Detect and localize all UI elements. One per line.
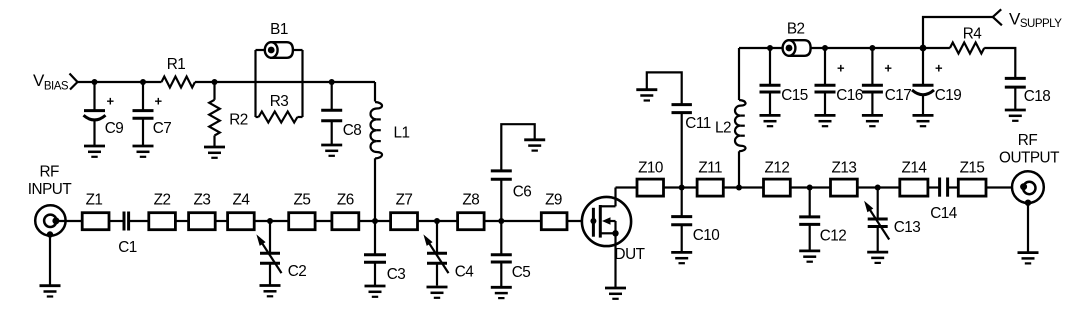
- transmission line Z6: [332, 213, 359, 230]
- ground under C3: [365, 286, 386, 297]
- wire Z3 to Z4: [215, 220, 227, 222]
- junction C7 node: [140, 79, 146, 85]
- ferrite bead B2: [783, 20, 811, 55]
- svg-text:R4: R4: [963, 26, 983, 43]
- variable capacitor C4: [423, 221, 474, 286]
- transmission line Z14: [900, 179, 928, 196]
- RF output coax connector: [1012, 171, 1044, 206]
- svg-text:Z3: Z3: [193, 191, 210, 208]
- transmission line Z8: [458, 213, 485, 230]
- svg-text:C1: C1: [118, 239, 137, 256]
- wire L2 to supply rail: [738, 48, 740, 100]
- capacitor C14: [930, 178, 958, 223]
- svg-text:Z6: Z6: [337, 191, 354, 208]
- ground under C19: [913, 115, 934, 126]
- transmission line Z3: [189, 213, 216, 230]
- svg-text:C8: C8: [343, 122, 362, 139]
- svg-text:B2: B2: [787, 20, 805, 37]
- RF input coax connector: [35, 205, 65, 237]
- junction C4 node: [434, 218, 440, 224]
- wire Z1 to C1: [109, 220, 124, 222]
- svg-text:+: +: [106, 94, 114, 109]
- svg-text:Z1: Z1: [86, 191, 103, 208]
- svg-text:B1: B1: [270, 21, 288, 38]
- transmission line Z2: [149, 213, 176, 230]
- svg-text:+: +: [935, 61, 943, 76]
- transmission line Z7: [391, 213, 418, 230]
- wire Z5 to Z6: [315, 220, 332, 222]
- wire Z6 to L1-C3 node: [359, 220, 391, 222]
- svg-text:C18: C18: [1024, 88, 1051, 105]
- wire supply rail: [739, 47, 923, 49]
- svg-text:+: +: [884, 61, 892, 76]
- junction C5-C6 node: [498, 218, 504, 224]
- wire Z4 to C2 node: [254, 220, 289, 222]
- capacitor C10: [671, 188, 719, 253]
- svg-text:Z14: Z14: [901, 159, 927, 176]
- capacitor C12: [799, 188, 846, 251]
- ground under C16: [815, 115, 836, 126]
- transmission line Z12: [764, 179, 791, 196]
- ground of C11: [636, 90, 657, 101]
- svg-text:C14: C14: [930, 205, 958, 222]
- inductor L1: [371, 102, 383, 159]
- ground under R2: [204, 147, 225, 158]
- transmission line Z4: [228, 213, 255, 230]
- capacitor C19: [912, 48, 961, 115]
- svg-text:C2: C2: [288, 263, 307, 280]
- svg-text:Z10: Z10: [638, 159, 663, 176]
- ground under C9: [84, 146, 105, 157]
- junction C15 node: [767, 45, 773, 51]
- capacitor C18: [1005, 78, 1050, 110]
- capacitor C17: [862, 48, 911, 115]
- svg-text:C3: C3: [387, 266, 406, 283]
- svg-text:+: +: [837, 61, 845, 76]
- svg-text:C16: C16: [836, 87, 863, 104]
- wire connector to Z1: [57, 220, 82, 222]
- capacitor C8: [321, 82, 361, 145]
- node VBIAS input chevron: [70, 74, 78, 90]
- svg-text:C13: C13: [894, 219, 921, 236]
- ground under C10: [671, 252, 692, 263]
- wire DUT drain to Z10: [616, 186, 638, 188]
- svg-text:Z12: Z12: [764, 159, 789, 176]
- wire L1 to input line: [374, 158, 376, 221]
- capacitor C7: [133, 82, 172, 146]
- wire Z10 to C10-C11 node: [664, 186, 698, 188]
- junction L2 node: [736, 185, 742, 191]
- svg-text:C19: C19: [935, 87, 962, 104]
- transmission line Z15: [958, 179, 986, 196]
- capacitor C3: [364, 221, 405, 286]
- ground under C4: [427, 287, 448, 298]
- ground under C8: [321, 145, 342, 156]
- svg-text:C11: C11: [685, 115, 710, 132]
- svg-text:DUT: DUT: [615, 246, 645, 263]
- svg-text:INPUT: INPUT: [28, 181, 72, 198]
- transmission line Z13: [831, 179, 858, 196]
- junction R2 node: [212, 79, 218, 85]
- resistor R2: [209, 82, 248, 147]
- svg-text:C5: C5: [512, 264, 531, 281]
- junction C10-C11 node: [679, 185, 685, 191]
- svg-text:RF: RF: [1018, 132, 1038, 149]
- svg-text:Z11: Z11: [698, 159, 722, 176]
- ferrite bead B1: [256, 21, 303, 58]
- svg-text:C4: C4: [455, 264, 475, 281]
- capacitor C9: [84, 82, 124, 146]
- ground of C6: [524, 140, 545, 151]
- wire bias rail right: [195, 81, 375, 83]
- svg-text:C7: C7: [153, 120, 172, 137]
- wire output connector to ground: [1027, 203, 1029, 253]
- wire R4 to C18: [984, 48, 1015, 78]
- wire bias rail corner down to L1: [374, 82, 376, 102]
- svg-text:Z15: Z15: [960, 159, 985, 176]
- wire VSUPPLY riser: [923, 17, 993, 48]
- svg-text:R1: R1: [167, 56, 186, 73]
- svg-text:Z4: Z4: [232, 191, 250, 208]
- svg-text:Z2: Z2: [154, 191, 171, 208]
- transmission line Z5: [289, 213, 315, 230]
- inductor L2: [735, 100, 746, 151]
- wire DUT source to ground: [614, 233, 616, 288]
- svg-text:C12: C12: [820, 228, 847, 245]
- svg-text:C10: C10: [693, 227, 720, 244]
- wire Z9 to DUT gate: [567, 220, 593, 222]
- node VSUPPLY chevron: [993, 9, 1002, 25]
- resistor R3: [256, 93, 303, 123]
- junction C2 node: [267, 218, 273, 224]
- wire Z13 to C13 node: [857, 186, 900, 188]
- capacitor C6: [491, 124, 535, 221]
- transmission line Z11: [697, 179, 723, 196]
- transmission line Z9: [541, 213, 567, 230]
- wire B1-R3 loop left: [254, 50, 256, 117]
- ground under RF input: [40, 286, 61, 297]
- svg-text:R3: R3: [270, 93, 289, 110]
- svg-text:L2: L2: [715, 120, 731, 137]
- junction C13 node: [875, 185, 881, 191]
- wire Z2 to Z3: [175, 220, 188, 222]
- wire connector to ground: [49, 235, 51, 286]
- wire rail to R4: [923, 47, 950, 49]
- ground under RF output: [1018, 253, 1039, 264]
- variable capacitor C2: [256, 221, 306, 286]
- junction L1-C3 node: [372, 218, 378, 224]
- junction C9 node: [92, 79, 98, 85]
- wire C1 to Z2: [129, 220, 149, 222]
- resistor R1: [162, 77, 195, 88]
- svg-text:Z13: Z13: [831, 159, 856, 176]
- capacitor C5: [491, 221, 530, 287]
- junction C17 node: [869, 45, 875, 51]
- svg-text:R2: R2: [229, 112, 248, 129]
- wire Z15 to output connector: [986, 186, 1020, 188]
- ground under C5: [491, 287, 512, 298]
- svg-text:Z8: Z8: [462, 191, 479, 208]
- capacitor C16: [815, 48, 863, 115]
- wire Z14 to C14: [928, 186, 940, 188]
- svg-text:C6: C6: [513, 184, 532, 201]
- ground under C2: [260, 286, 281, 297]
- resistor R4: [950, 43, 984, 54]
- svg-text:C15: C15: [781, 87, 808, 104]
- wire L2 to output line: [738, 151, 740, 187]
- variable capacitor C13: [864, 188, 920, 253]
- svg-text:RF: RF: [39, 164, 59, 181]
- svg-text:OUTPUT: OUTPUT: [999, 150, 1059, 167]
- transmission line Z1: [82, 213, 109, 230]
- ground under C13: [867, 252, 888, 263]
- svg-text:Z7: Z7: [396, 191, 413, 208]
- junction C16 node: [822, 45, 828, 51]
- junction C8 node: [329, 79, 335, 85]
- wire Z11 to L2 node: [723, 186, 763, 188]
- wire Z12 to C12 node: [790, 186, 830, 188]
- transmission line Z10: [637, 179, 664, 196]
- wire Z8 to C5-C6 node: [484, 220, 541, 222]
- ground under C12: [799, 251, 820, 262]
- ground under DUT: [605, 288, 626, 299]
- svg-text:Z5: Z5: [293, 191, 310, 208]
- junction C12 node: [807, 185, 813, 191]
- capacitor C11: [647, 72, 711, 187]
- wire Z7 to C4 node: [418, 220, 458, 222]
- svg-text:C17: C17: [885, 87, 912, 104]
- wire bias rail left: [78, 81, 162, 83]
- ground under C15: [760, 115, 781, 126]
- capacitor C1: [118, 212, 137, 257]
- wire C14 to Z15: [948, 186, 959, 188]
- svg-text:C9: C9: [105, 120, 124, 137]
- transistor DUT: [582, 188, 645, 264]
- capacitor C15: [760, 48, 808, 115]
- junction VSUPPLY node: [920, 45, 927, 52]
- ground under C7: [133, 146, 154, 157]
- wire B1-R3 loop right: [301, 50, 303, 117]
- svg-text:Z9: Z9: [545, 191, 562, 208]
- svg-text:+: +: [154, 94, 162, 109]
- ground under C17: [862, 115, 883, 126]
- ground under C18: [1005, 110, 1026, 121]
- svg-text:L1: L1: [393, 125, 409, 142]
